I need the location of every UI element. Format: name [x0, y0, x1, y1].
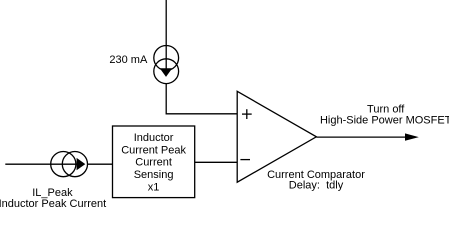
svg-text:x1: x1 [148, 182, 160, 194]
arrowhead of 230mA current source [160, 68, 173, 77]
svg-text:Inductor: Inductor [134, 132, 174, 144]
svg-text:230 mA: 230 mA [109, 54, 148, 66]
current source 230mA (two overlapping circles, arrow down) [154, 46, 179, 84]
current source IL_Peak (two overlapping circles, arrow right) [51, 152, 88, 177]
wire: sensing block to - input [195, 161, 238, 163]
output wire [316, 136, 406, 138]
wire: current source down then right to + input [166, 84, 237, 114]
output arrowhead [405, 133, 419, 140]
wire: left input lead [5, 163, 77, 165]
svg-text:Sensing: Sensing [134, 169, 174, 181]
svg-text:High-Side Power MOSFET: High-Side Power MOSFET [320, 114, 449, 126]
plus input marker [242, 109, 252, 119]
minus input marker [240, 159, 250, 161]
wire: current source to sensing block [88, 163, 113, 165]
arrowhead of IL_Peak current source [77, 158, 86, 170]
svg-text:Inductor Peak Current: Inductor Peak Current [0, 198, 106, 210]
wire: top vertical feed into current source [165, 0, 167, 69]
comparator U1 (triangle) [237, 91, 316, 182]
block: Inductor Current Peak Current Sensing x1 [113, 126, 195, 198]
svg-text:Current: Current [135, 157, 172, 169]
svg-text:Current Peak: Current Peak [121, 144, 186, 156]
svg-text:Delay: tdly: Delay: tdly [289, 180, 344, 192]
